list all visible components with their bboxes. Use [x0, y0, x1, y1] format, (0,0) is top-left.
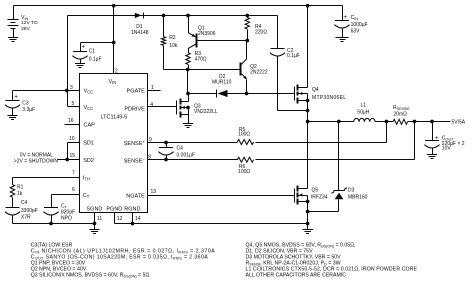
svg-text:L1: L1 — [361, 103, 367, 109]
svg-text:2: 2 — [115, 68, 118, 74]
svg-text:NPO: NPO — [61, 216, 72, 222]
svg-text:0V = NORMAL: 0V = NORMAL — [20, 152, 53, 158]
svg-text:R2: R2 — [169, 35, 176, 41]
svg-text:MTP30N06EL: MTP30N06EL — [312, 95, 346, 101]
svg-text:220Ω: 220Ω — [255, 29, 267, 35]
svg-text:13: 13 — [151, 189, 157, 195]
svg-text:Q4: Q4 — [312, 87, 319, 93]
svg-text:50µH: 50µH — [357, 110, 369, 116]
svg-text:3300pF: 3300pF — [21, 208, 38, 214]
svg-text:10k: 10k — [169, 43, 178, 49]
svg-text:470Ω: 470Ω — [195, 56, 207, 62]
svg-text:+: + — [343, 14, 347, 21]
svg-text:>2V = SHUTDOWN: >2V = SHUTDOWN — [14, 159, 59, 165]
svg-text:SENSE−: SENSE− — [124, 157, 146, 165]
svg-text:14: 14 — [135, 216, 141, 222]
svg-text:10: 10 — [69, 136, 75, 142]
svg-text:1N4148: 1N4148 — [131, 30, 149, 36]
svg-text:NGATE: NGATE — [126, 193, 145, 199]
svg-text:D3: D3 — [348, 188, 355, 194]
svg-text:RSENSE: RSENSE — [393, 105, 410, 111]
svg-text:10V: 10V — [442, 146, 452, 152]
svg-text:IRFZ34: IRFZ34 — [311, 195, 328, 201]
svg-text:100Ω: 100Ω — [238, 169, 250, 175]
svg-text:Q5: Q5 — [312, 188, 319, 194]
svg-text:820pF: 820pF — [61, 209, 75, 215]
svg-text:63V: 63V — [351, 29, 361, 35]
svg-text:MUR110: MUR110 — [212, 79, 232, 85]
svg-text:+: + — [81, 44, 85, 51]
svg-text:PDRIVE: PDRIVE — [124, 106, 145, 112]
svg-text:5V/5A: 5V/5A — [452, 119, 466, 125]
svg-text:D1: D1 — [136, 24, 143, 30]
svg-text:LTC1149-5: LTC1149-5 — [101, 115, 128, 121]
svg-text:CAP: CAP — [84, 123, 96, 129]
svg-text:12V TO: 12V TO — [21, 20, 38, 26]
svg-text:VIN: VIN — [109, 79, 117, 85]
svg-text:PGND: PGND — [106, 206, 122, 212]
svg-text:SENSE+: SENSE+ — [124, 139, 146, 147]
svg-text:20mΩ: 20mΩ — [393, 111, 407, 117]
svg-text:2N3906: 2N3906 — [198, 31, 216, 37]
svg-text:16: 16 — [68, 118, 74, 124]
svg-text:6: 6 — [72, 187, 75, 193]
svg-text:7: 7 — [72, 170, 75, 176]
svg-text:PGATE: PGATE — [127, 89, 146, 95]
svg-text:5: 5 — [72, 101, 75, 107]
svg-text:1k: 1k — [17, 191, 23, 197]
svg-text:Q3 SILICONIX NMOS, BVDSS = 60V: Q3 SILICONIX NMOS, BVDSS = 60V, RDS(ON) … — [31, 272, 150, 278]
svg-text:12: 12 — [117, 216, 123, 222]
svg-text:CIN: CIN — [351, 15, 359, 21]
svg-text:3.3µF: 3.3µF — [22, 107, 35, 113]
svg-text:ALL OTHER CAPACITORS ARE CERAM: ALL OTHER CAPACITORS ARE CERAMIC — [246, 272, 347, 278]
svg-text:2N2222: 2N2222 — [250, 70, 268, 76]
svg-text:MBR160: MBR160 — [348, 195, 368, 201]
svg-text:VN2222LL: VN2222LL — [194, 109, 218, 115]
svg-text:1000µF: 1000µF — [351, 22, 368, 28]
svg-text:3: 3 — [70, 85, 73, 91]
svg-text:4: 4 — [150, 102, 153, 108]
svg-text:+: + — [435, 134, 439, 141]
svg-text:SD2: SD2 — [83, 158, 94, 164]
svg-text:RGND: RGND — [124, 206, 140, 212]
svg-text:15: 15 — [70, 153, 76, 159]
svg-text:X7R: X7R — [21, 215, 31, 221]
svg-text:36V: 36V — [21, 26, 30, 32]
svg-text:11: 11 — [97, 216, 102, 222]
svg-text:ITH: ITH — [83, 176, 90, 182]
svg-text:C4: C4 — [177, 146, 184, 152]
svg-text:9: 9 — [149, 137, 152, 143]
svg-text:C4: C4 — [21, 200, 28, 206]
svg-text:+: + — [14, 93, 18, 100]
svg-text:8: 8 — [148, 155, 151, 161]
svg-text:R1: R1 — [17, 185, 24, 191]
svg-text:CT: CT — [83, 193, 90, 199]
svg-text:C1: C1 — [89, 49, 96, 55]
svg-text:C3: C3 — [22, 101, 29, 107]
svg-text:VCC: VCC — [84, 105, 94, 111]
svg-text:0.1µF: 0.1µF — [89, 57, 102, 63]
svg-text:SD1: SD1 — [83, 141, 94, 147]
svg-text:0.001µF: 0.001µF — [177, 152, 195, 158]
svg-text:VCC: VCC — [84, 89, 94, 95]
svg-text:100Ω: 100Ω — [238, 132, 250, 138]
svg-text:0.1µF: 0.1µF — [287, 53, 300, 59]
svg-text:SGND: SGND — [87, 206, 103, 212]
svg-text:1: 1 — [151, 85, 154, 91]
